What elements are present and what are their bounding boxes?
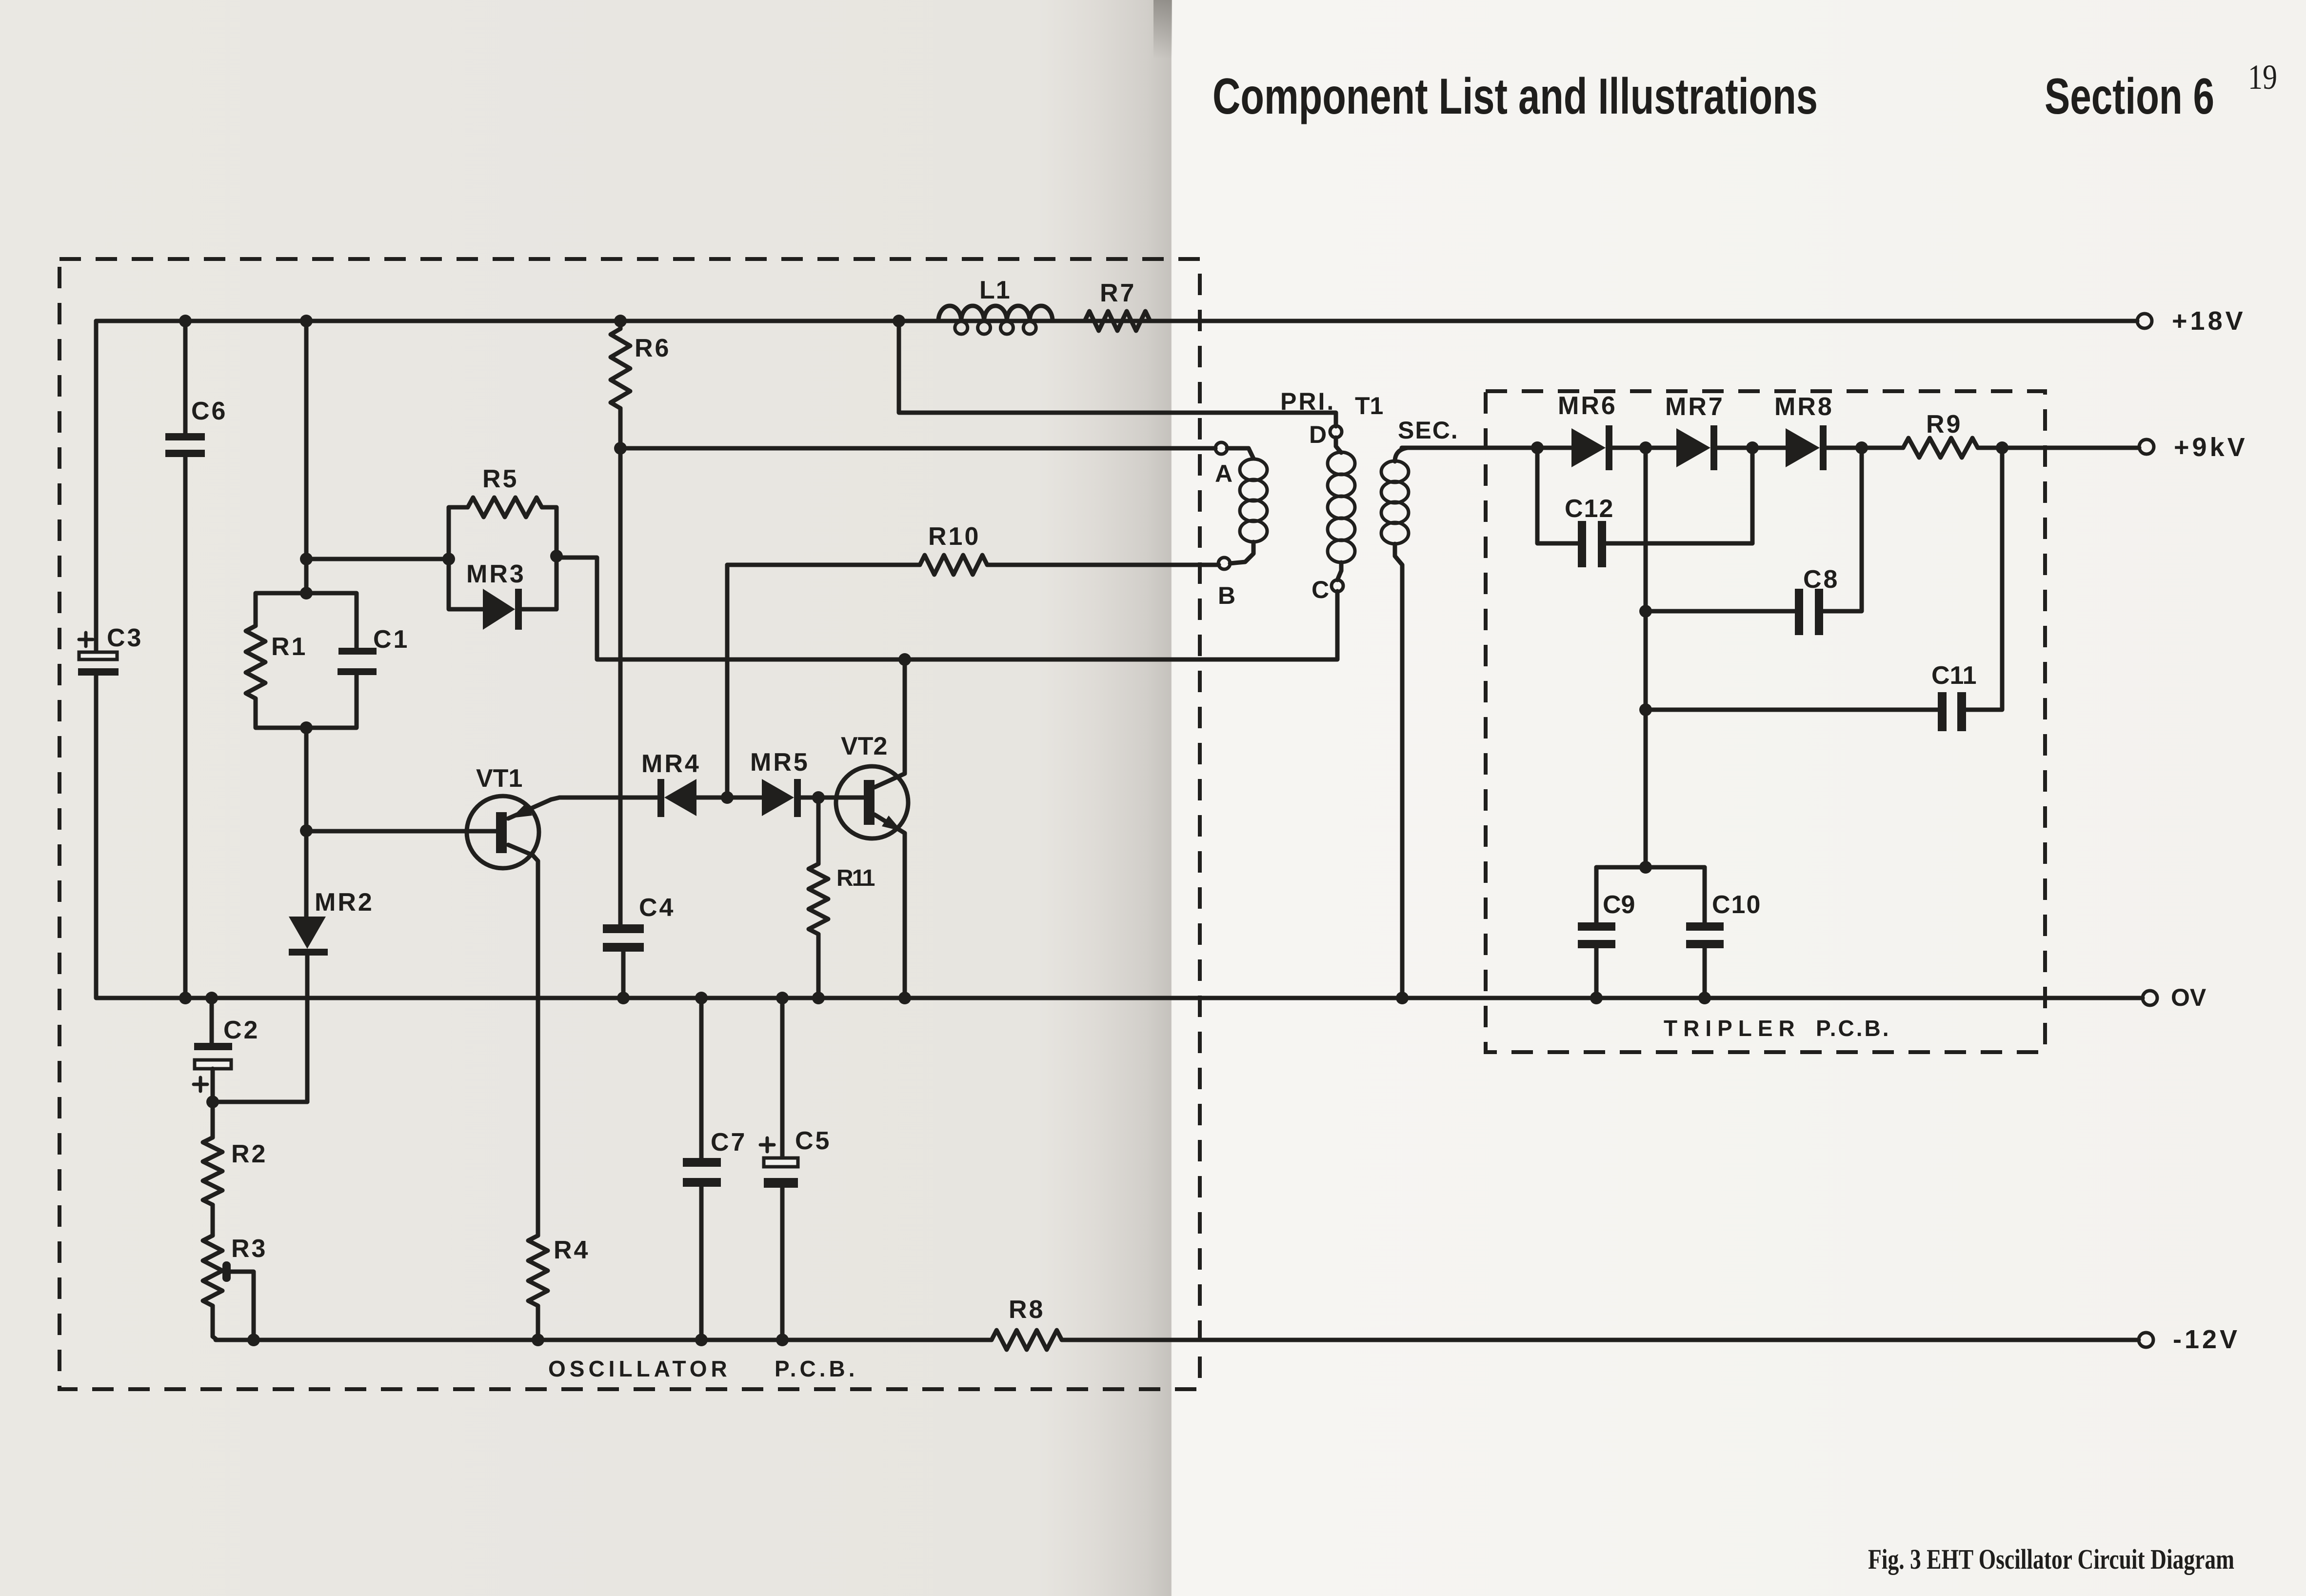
svg-text:SEC.: SEC. xyxy=(1398,417,1459,444)
svg-text:C8: C8 xyxy=(1803,565,1839,594)
svg-text:TRIPLER: TRIPLER xyxy=(1664,1016,1801,1041)
svg-text:Fig. 3 EHT Oscillator Circuit: Fig. 3 EHT Oscillator Circuit Diagram xyxy=(1868,1543,2234,1575)
svg-text:PRI.: PRI. xyxy=(1280,388,1335,415)
svg-text:D: D xyxy=(1309,421,1327,448)
wire R6 node down to C4 xyxy=(618,448,623,924)
tripler P.C.B. dashed box xyxy=(1486,391,2045,1052)
svg-text:C11: C11 xyxy=(1931,661,1977,690)
terminal -12V xyxy=(2139,1333,2153,1347)
node MR6/MR7 xyxy=(1639,441,1652,454)
node MR5/VT2 junction with R11 xyxy=(812,791,825,804)
resistor R8 xyxy=(992,1296,1062,1350)
resistor R1 xyxy=(246,593,307,728)
node R1/C1 bottom xyxy=(300,721,313,734)
svg-text:C4: C4 xyxy=(639,894,675,922)
resistor R5 / diode MR3 parallel box xyxy=(449,465,557,609)
resistor R9 xyxy=(1862,410,2139,458)
svg-text:Section 6: Section 6 xyxy=(2045,68,2214,125)
resistor R7 xyxy=(1085,279,1150,331)
diode MR5 (pointing right) xyxy=(750,748,865,817)
svg-text:+18V: +18V xyxy=(2172,306,2246,336)
transistor VT2 xyxy=(836,653,911,1004)
terminal B xyxy=(1218,558,1235,609)
label OSCILLATOR P.C.B. xyxy=(548,1356,858,1381)
svg-text:C7: C7 xyxy=(711,1128,747,1157)
capacitor C8 xyxy=(1646,448,1862,635)
capacitor C4 xyxy=(603,894,675,1004)
terminal C xyxy=(1312,576,1343,603)
svg-text:R7: R7 xyxy=(1100,279,1136,307)
wire R5 box left feeder xyxy=(306,557,449,561)
svg-text:MR2: MR2 xyxy=(315,888,374,917)
diode MR2 xyxy=(289,888,374,1102)
svg-text:A: A xyxy=(1215,460,1233,487)
svg-text:R5: R5 xyxy=(482,465,518,493)
svg-text:R1: R1 xyxy=(271,633,307,661)
svg-text:OV: OV xyxy=(2171,984,2207,1011)
inductor L1 xyxy=(893,276,1053,334)
svg-text:MR8: MR8 xyxy=(1774,393,1834,421)
svg-text:VT1: VT1 xyxy=(476,764,522,793)
terminal OV xyxy=(2143,991,2157,1005)
diode MR7 xyxy=(1646,393,1752,470)
svg-text:R10: R10 xyxy=(928,522,980,551)
svg-text:OSCILLATOR: OSCILLATOR xyxy=(548,1356,731,1381)
diode MR8 xyxy=(1752,393,1862,470)
svg-text:P.C.B.: P.C.B. xyxy=(1816,1016,1891,1041)
wire OV rail xyxy=(98,996,2143,1000)
svg-text:C10: C10 xyxy=(1712,891,1761,919)
ink streak at top of gutter xyxy=(0,0,0,0)
svg-text:MR5: MR5 xyxy=(750,748,810,777)
svg-text:C9: C9 xyxy=(1603,891,1635,919)
capacitor C10 xyxy=(1686,867,1761,1004)
wire node to VT1 base tap xyxy=(304,728,309,917)
svg-text:C1: C1 xyxy=(373,625,409,654)
terminal +18V xyxy=(2137,314,2152,328)
capacitor C1 xyxy=(306,593,409,728)
node MR7/MR8 xyxy=(1746,441,1759,454)
capacitor C3 (electrolytic) xyxy=(78,321,143,998)
transistor VT1 xyxy=(306,764,551,1236)
resistor R2 xyxy=(203,1102,267,1236)
svg-text:R2: R2 xyxy=(231,1140,267,1168)
svg-text:VT2: VT2 xyxy=(841,732,887,760)
svg-text:R9: R9 xyxy=(1926,410,1962,439)
capacitor C12 xyxy=(1537,448,1752,567)
capacitor C7 xyxy=(683,992,747,1346)
svg-text:R8: R8 xyxy=(1009,1296,1045,1324)
svg-text:C: C xyxy=(1312,576,1329,603)
capacitor C11 xyxy=(1646,441,2008,731)
wire node2 drop (MR7/MR8 to C12 line) xyxy=(1750,448,1755,543)
wire -12V rail (right part) xyxy=(1062,1338,2139,1342)
node MR4/MR5 junction with B-line feeder xyxy=(721,565,734,804)
diode MR6 xyxy=(1537,392,1646,470)
wire D line from +18V rail xyxy=(899,321,1336,426)
svg-text:B: B xyxy=(1218,582,1235,609)
svg-text:L1: L1 xyxy=(979,276,1011,304)
diode MR3 xyxy=(466,550,563,630)
svg-text:MR4: MR4 xyxy=(641,750,701,778)
svg-text:19: 19 xyxy=(2248,58,2277,97)
wire C2/MR2 junction xyxy=(206,1096,307,1108)
wire +18V rail xyxy=(96,319,2137,323)
svg-text:P.C.B.: P.C.B. xyxy=(775,1356,858,1381)
winding primary D-C xyxy=(1328,438,1355,580)
svg-text:C6: C6 xyxy=(191,397,227,425)
svg-text:MR6: MR6 xyxy=(1558,392,1617,420)
capacitor C2 (electrolytic) xyxy=(194,992,259,1102)
capacitor C9 xyxy=(1578,867,1635,1004)
wire -12V rail (left part, R8 in line) xyxy=(216,1338,992,1342)
svg-text:R11: R11 xyxy=(836,865,875,891)
wire feeder from +18V rail down to R1/C1 node xyxy=(300,315,313,599)
svg-text:-12V: -12V xyxy=(2173,1325,2240,1354)
winding secondary xyxy=(1381,448,1537,1004)
node tripler input xyxy=(1531,441,1544,454)
wire center drop to C11 line xyxy=(1639,611,1652,716)
resistor R4 xyxy=(528,1236,590,1346)
svg-text:MR7: MR7 xyxy=(1665,393,1725,421)
resistor R6 xyxy=(611,315,671,455)
svg-text:Component List and Illustratio: Component List and Illustrations xyxy=(1213,68,1818,125)
capacitor C6 xyxy=(165,315,227,1004)
resistor R10 xyxy=(727,522,1219,575)
node MR8/R9 xyxy=(1855,441,1868,454)
wire VT1 emitter line to diode row xyxy=(551,798,657,799)
wire center drop to C9/C10 bar xyxy=(1596,710,1705,874)
wire A line (R6 to transformer A) xyxy=(620,446,1215,451)
svg-text:C3: C3 xyxy=(107,624,143,652)
diode MR4 (pointing left) xyxy=(641,750,762,817)
resistor R11 xyxy=(809,798,875,1004)
capacitor C5 (electrolytic) xyxy=(760,992,831,1346)
svg-text:C2: C2 xyxy=(223,1016,259,1044)
wire from R5/MR3 box to C-line xyxy=(557,558,1337,659)
winding primary A-B xyxy=(1227,448,1267,563)
svg-text:C12: C12 xyxy=(1565,495,1614,523)
terminal A xyxy=(1215,442,1233,487)
svg-text:+9kV: +9kV xyxy=(2174,433,2248,462)
svg-text:T1: T1 xyxy=(1355,392,1383,419)
terminal +9kV xyxy=(2139,433,2248,462)
svg-text:C5: C5 xyxy=(795,1127,831,1155)
wire node1 drop (MR6/MR7 to C8 line) xyxy=(1639,448,1652,618)
terminal D xyxy=(1309,421,1342,448)
svg-text:R3: R3 xyxy=(231,1235,267,1263)
oscillator P.C.B. dashed box xyxy=(60,259,1200,1389)
svg-text:MR3: MR3 xyxy=(466,560,526,588)
svg-text:R4: R4 xyxy=(554,1236,590,1264)
label TRIPLER P.C.B. xyxy=(1664,1016,1891,1041)
svg-text:R6: R6 xyxy=(635,334,671,362)
resistor R3 (preset) xyxy=(203,1235,267,1346)
